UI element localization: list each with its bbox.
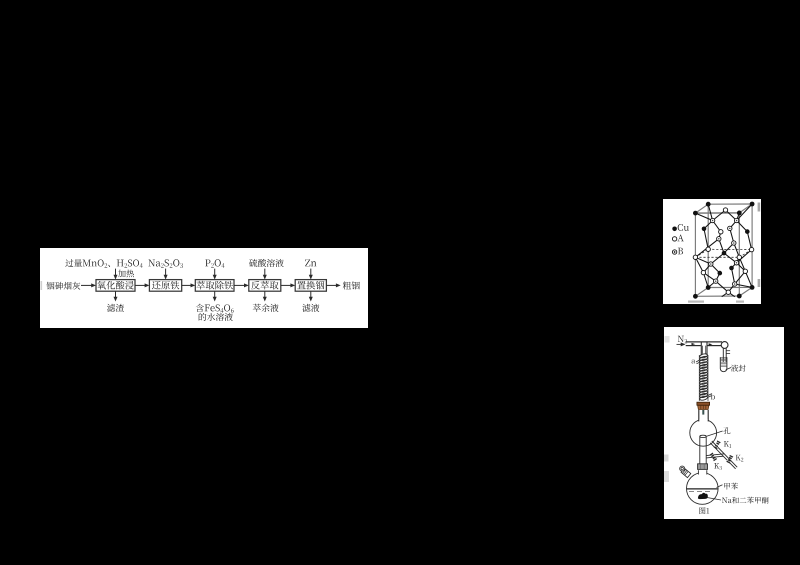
apparatus panel [664,327,784,519]
scan artifact bar [41,281,43,290]
process box 还原铁 [149,280,181,292]
label N2 [678,336,687,343]
label 加热 [118,270,134,278]
output 萃余液 [253,304,279,312]
ground glass joint [698,464,708,470]
mid-plane dashed lines [695,249,751,257]
unit cell edges [695,204,752,296]
scan artifacts [688,203,760,303]
spiral condenser coil [699,353,708,401]
condenser neck [701,342,707,355]
upper flask neck [699,410,708,422]
label Na和二苯甲酮 [707,497,769,504]
arrow to 滤液 [310,291,312,297]
B atoms [709,218,739,286]
legend B dotted atom [672,248,683,255]
output 滤渣 [107,304,124,312]
side arm a [692,359,700,363]
middle bulb flask [690,410,717,446]
reagent 过量MnO2、H2SO4 [65,259,142,268]
branch tube K3 [706,454,724,458]
reagent Na2S2O3 [148,259,183,267]
arrow into 置换铟 [310,269,312,276]
process box 萃取除铁 [195,280,234,292]
process box 氧化酸浸 [96,280,135,292]
legend A open atom [672,235,683,242]
feed label 铟砷烟灰 [46,282,80,290]
inlet tube [686,342,722,346]
crystal structure panel [663,199,761,304]
cork stopper [697,402,710,409]
flow arrow [182,284,192,286]
arrow into 氧化酸浸 [115,269,117,276]
flow arrow [135,284,145,286]
label K1 [724,441,731,448]
bond lines [695,204,752,297]
process box 反萃取 [249,280,281,292]
Cu corner atoms [693,202,755,299]
arrow into 反萃取 [264,269,266,276]
N2 inlet arrow [677,343,682,345]
stopcock K3 [709,452,717,461]
arrow to 滤渣 [115,291,117,297]
liquid seal test tube [720,357,727,372]
flow arrow [326,284,336,286]
reagent 硫酸溶液 [249,259,284,267]
bottom flask [687,470,719,504]
output 滤液 [302,304,319,312]
flow arrow [281,284,291,286]
Cu interior atoms [702,227,750,276]
reagent Zn [305,259,316,266]
toluene liquid surface [687,489,718,492]
side arm b [708,393,715,399]
arrow to 萃余液 [264,291,266,297]
scan artifacts [664,336,670,482]
label 甲苯 [717,483,738,490]
flow arrow [234,284,245,286]
flowchart panel [40,248,368,328]
seal dip tube [723,348,730,363]
label 孔 [707,427,731,436]
rounded elbow [721,342,728,349]
process box 置换铟 [295,280,326,292]
stopcock K1 [714,440,721,449]
side neck with stopper [680,466,691,477]
caption 图1 [699,507,709,514]
product label 粗铟 [343,281,360,289]
diagonal outlet tube [710,441,737,469]
inner tube and hole 孔 [700,435,706,464]
label K2 [736,455,744,462]
arrow into 还原铁 [165,269,167,276]
arrow into 萃取除铁 [214,269,216,276]
tube to liquid seal elbow [707,343,721,345]
A atoms [693,208,754,295]
label 液封 [726,365,746,372]
arrow to 含FeS4O6 solution [214,291,216,297]
Na and benzophenone blob [698,493,708,499]
stopcock K2 [726,455,733,464]
legend Cu filled atom [672,224,689,231]
output 含FeS4O6 的水溶液 [196,304,234,321]
reagent P2O4 [205,259,224,268]
label K3 [714,463,722,470]
flow arrow [81,284,92,286]
